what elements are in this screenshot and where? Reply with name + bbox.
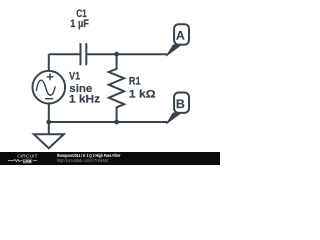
wire top rail right segment: [87, 53, 167, 55]
node B box: [174, 93, 189, 113]
sine glyph: [36, 80, 55, 95]
svg-text:B: B: [176, 97, 185, 111]
plus sign: [47, 73, 54, 80]
junction dot left bottom: [46, 120, 51, 125]
resistor R1: [109, 54, 124, 122]
svg-text:http://circuitlab.com/c/7n5k9p: http://circuitlab.com/c/7n5k9pt: [57, 158, 109, 163]
junction dot top: [114, 52, 119, 57]
wire bottom rail: [49, 121, 167, 123]
wire V1 bottom stub: [48, 103, 50, 134]
minus sign: [45, 98, 53, 100]
wire top rail left segment: [49, 53, 80, 55]
svg-text:A: A: [176, 29, 185, 43]
svg-text:V1: V1: [69, 71, 80, 83]
svg-text:thompson2014 / K 3 Q 2 High Pa: thompson2014 / K 3 Q 2 High Pass Filter: [57, 153, 121, 158]
wire V1 top stub: [48, 54, 50, 71]
capacitor C1: [81, 43, 87, 65]
node A flag tail: [166, 45, 181, 56]
logo zigzag wire left: [8, 159, 22, 161]
watermark bar: [0, 152, 220, 165]
logo LAB badge: [22, 159, 32, 164]
junction dot bottom: [114, 120, 119, 125]
node A box: [174, 24, 189, 44]
svg-text:1 kΩ: 1 kΩ: [129, 89, 156, 101]
svg-text:1 kHz: 1 kHz: [69, 93, 101, 105]
voltage source V1: [33, 71, 66, 104]
svg-text:LAB: LAB: [23, 160, 31, 164]
ground: [34, 134, 64, 148]
node B flag tail: [166, 113, 181, 124]
logo line right: [33, 160, 37, 162]
svg-text:R1: R1: [129, 76, 141, 88]
svg-text:1 µF: 1 µF: [70, 18, 89, 30]
